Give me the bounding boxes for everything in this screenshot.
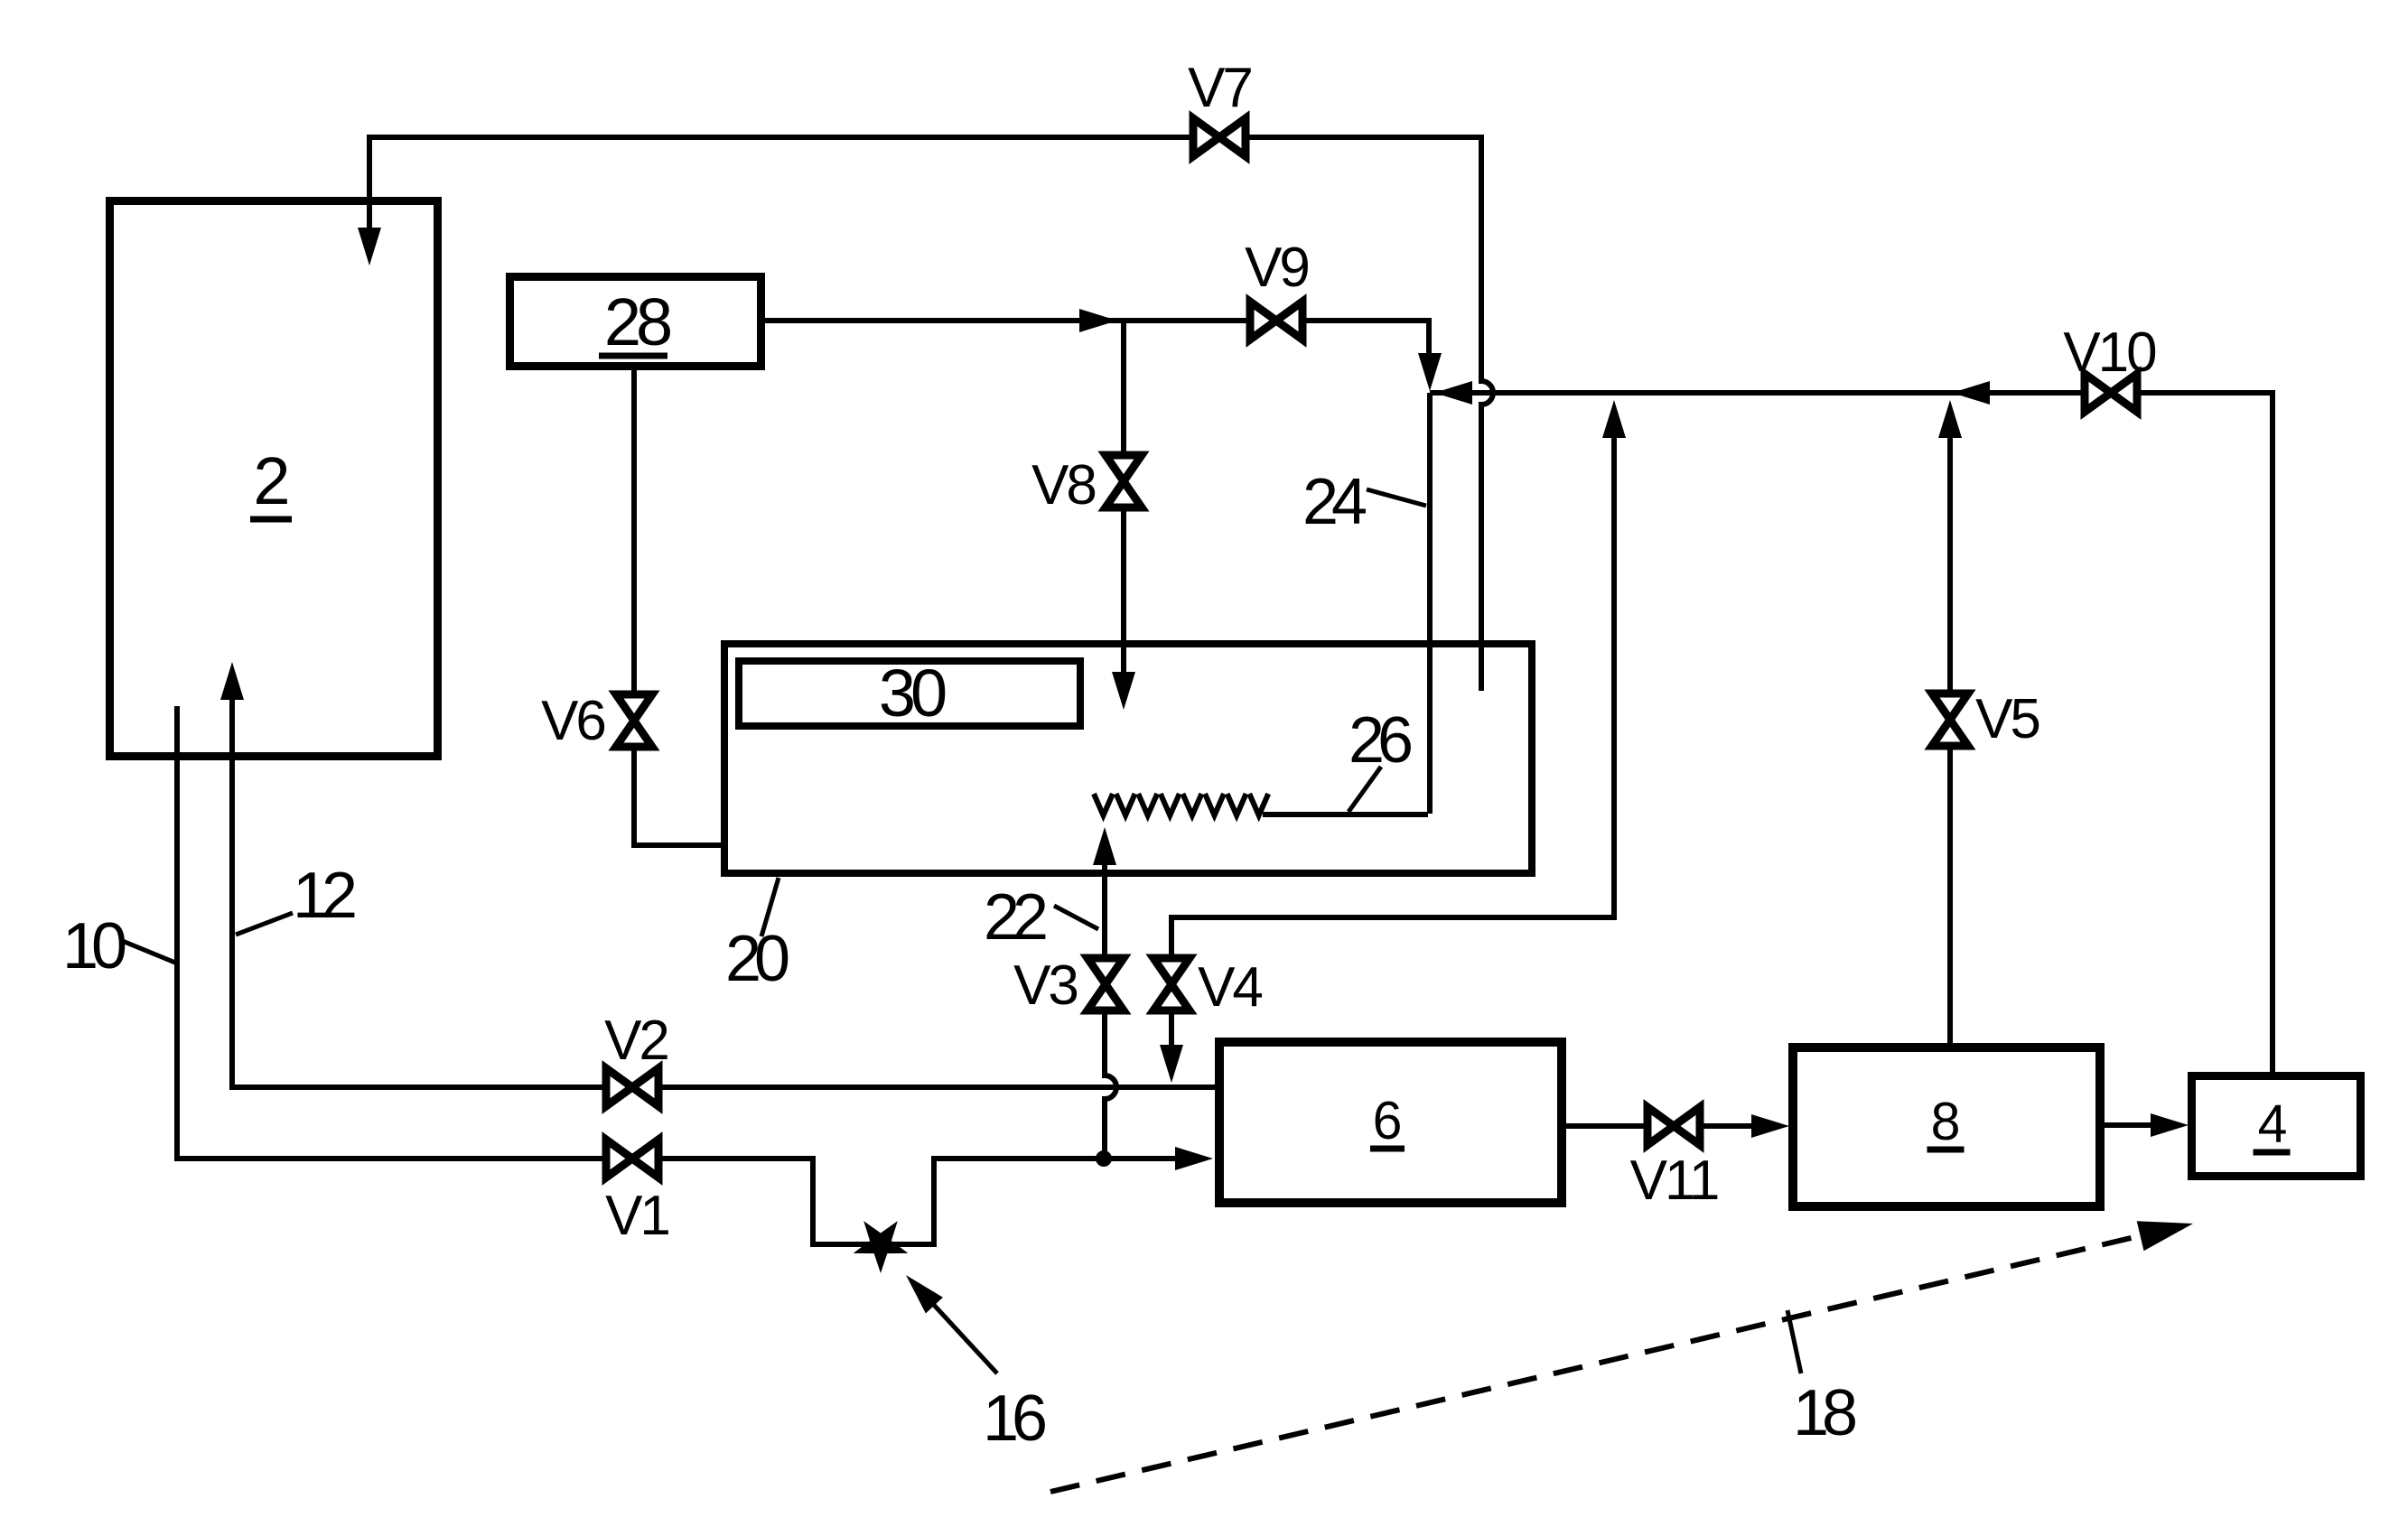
svg-text:30: 30 (879, 656, 946, 731)
svg-text:12: 12 (293, 860, 355, 932)
svg-text:26: 26 (1349, 704, 1411, 777)
svg-text:V4: V4 (1198, 956, 1262, 1019)
svg-text:22: 22 (984, 881, 1046, 954)
svg-text:V2: V2 (604, 1010, 667, 1072)
svg-text:V10: V10 (2063, 321, 2156, 384)
svg-text:V3: V3 (1013, 954, 1077, 1017)
svg-text:4: 4 (2258, 1094, 2288, 1154)
svg-text:V7: V7 (1188, 57, 1251, 119)
svg-text:V1: V1 (605, 1185, 668, 1247)
svg-text:V9: V9 (1245, 237, 1308, 299)
svg-text:20: 20 (725, 923, 789, 995)
svg-text:2: 2 (253, 443, 290, 518)
svg-text:24: 24 (1302, 466, 1366, 538)
svg-text:18: 18 (1793, 1377, 1855, 1449)
svg-text:10: 10 (62, 910, 126, 982)
svg-text:V5: V5 (1975, 688, 2039, 750)
svg-text:6: 6 (1373, 1091, 1403, 1150)
svg-text:28: 28 (604, 284, 670, 359)
svg-text:V6: V6 (541, 690, 604, 752)
svg-text:V11: V11 (1630, 1150, 1718, 1212)
svg-text:V8: V8 (1031, 454, 1095, 517)
svg-text:16: 16 (983, 1382, 1045, 1455)
svg-text:8: 8 (1931, 1092, 1961, 1151)
